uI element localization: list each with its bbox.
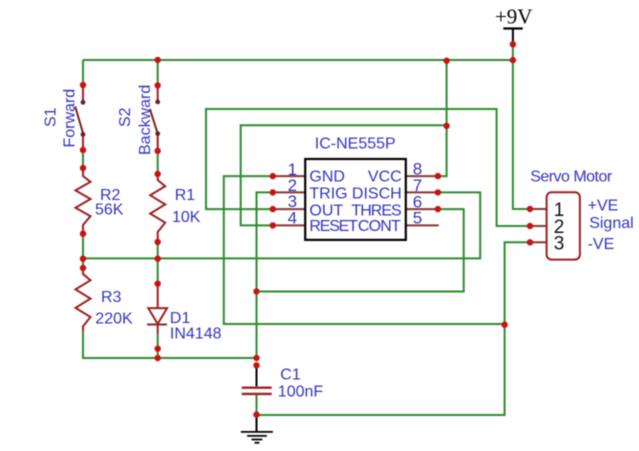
svg-text:56K: 56K <box>95 202 124 219</box>
svg-text:OUT: OUT <box>309 202 343 219</box>
svg-text:100nF: 100nF <box>278 384 324 401</box>
svg-text:Servo Motor: Servo Motor <box>530 168 613 185</box>
svg-text:+VE: +VE <box>588 197 619 214</box>
svg-text:IC-NE555P: IC-NE555P <box>315 135 396 152</box>
svg-text:-VE: -VE <box>588 236 615 253</box>
svg-text:+9V: +9V <box>495 4 533 28</box>
svg-text:CONT: CONT <box>358 218 401 235</box>
svg-text:Forward: Forward <box>62 89 79 148</box>
svg-text:R3: R3 <box>101 289 122 306</box>
svg-text:TRIG: TRIG <box>309 186 347 203</box>
svg-text:GND: GND <box>309 168 345 185</box>
svg-text:4: 4 <box>288 209 297 228</box>
svg-text:10K: 10K <box>172 209 201 226</box>
svg-text:Signal: Signal <box>589 215 633 232</box>
svg-text:IN4148: IN4148 <box>170 326 222 343</box>
svg-text:Backward: Backward <box>137 85 154 155</box>
svg-text:S2: S2 <box>117 107 134 127</box>
svg-text:220K: 220K <box>95 311 133 328</box>
svg-text:RESET: RESET <box>309 218 358 235</box>
svg-text:R1: R1 <box>175 187 196 204</box>
svg-text:DISCH: DISCH <box>352 186 402 203</box>
svg-text:C1: C1 <box>280 366 301 383</box>
svg-text:3: 3 <box>554 233 565 254</box>
svg-text:VCC: VCC <box>368 168 402 185</box>
svg-text:D1: D1 <box>170 310 191 327</box>
svg-text:THRES: THRES <box>351 202 401 219</box>
svg-text:S1: S1 <box>43 107 60 127</box>
svg-text:5: 5 <box>413 209 422 228</box>
